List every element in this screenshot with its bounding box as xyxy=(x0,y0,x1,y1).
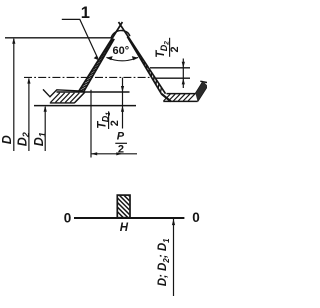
svg-text:H: H xyxy=(120,222,129,234)
svg-text:2: 2 xyxy=(118,143,124,155)
svg-text:D; D: D; D xyxy=(157,263,169,287)
svg-text:2: 2 xyxy=(169,46,181,52)
svg-text:2: 2 xyxy=(21,132,31,138)
svg-text:1: 1 xyxy=(37,132,47,137)
svg-text:D: D xyxy=(16,137,30,146)
svg-text:1: 1 xyxy=(81,4,90,22)
svg-text:; D: ; D xyxy=(157,243,169,258)
svg-text:2: 2 xyxy=(109,120,121,126)
svg-text:D: D xyxy=(0,135,14,144)
svg-text:P: P xyxy=(117,131,125,143)
svg-text:0: 0 xyxy=(192,210,200,225)
svg-text:0: 0 xyxy=(64,210,72,225)
svg-text:D: D xyxy=(32,137,46,146)
svg-text:1: 1 xyxy=(162,238,171,243)
svg-text:60°: 60° xyxy=(113,45,130,57)
